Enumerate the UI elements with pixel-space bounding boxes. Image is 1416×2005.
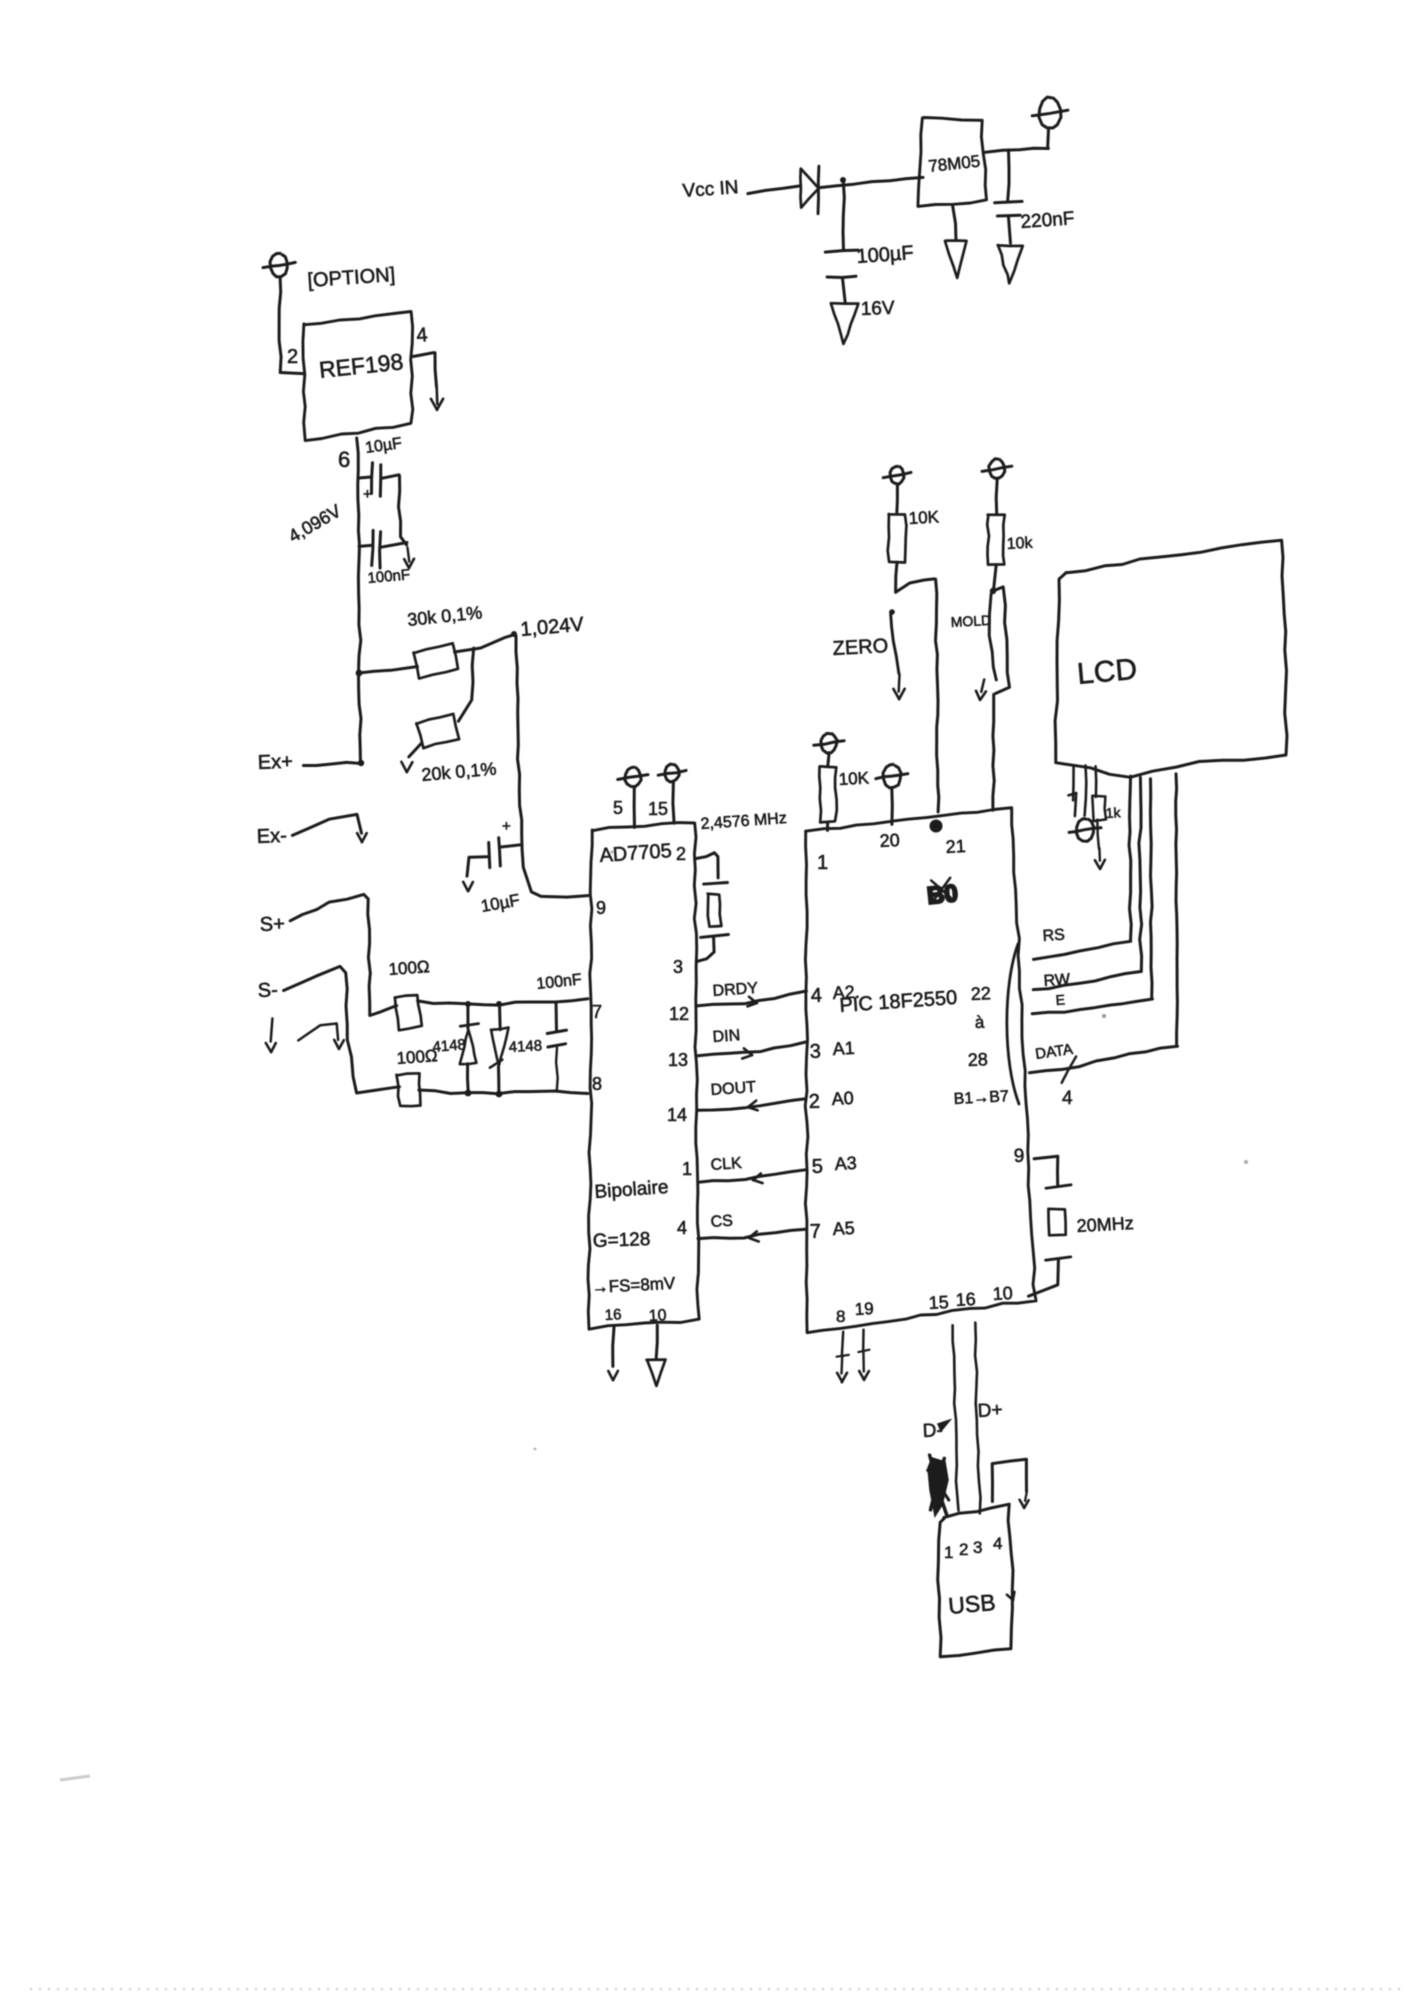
svg-text:19: 19 xyxy=(854,1299,874,1319)
svg-text:1k: 1k xyxy=(1105,804,1122,821)
svg-text:20: 20 xyxy=(879,830,900,851)
svg-text:12: 12 xyxy=(669,1004,689,1024)
svg-text:1: 1 xyxy=(817,852,828,874)
svg-text:7: 7 xyxy=(809,1221,821,1243)
svg-text:A5: A5 xyxy=(832,1218,855,1239)
svg-text:1: 1 xyxy=(682,1159,692,1179)
svg-text:DIN: DIN xyxy=(712,1027,741,1046)
svg-text:10K: 10K xyxy=(838,768,870,789)
svg-text:5: 5 xyxy=(613,798,623,818)
svg-text:10: 10 xyxy=(992,1283,1013,1304)
svg-text:13: 13 xyxy=(668,1050,688,1070)
svg-text:2: 2 xyxy=(676,844,686,864)
svg-text:A0: A0 xyxy=(831,1088,854,1109)
svg-text:4: 4 xyxy=(677,1218,687,1238)
svg-text:+: + xyxy=(363,486,372,503)
svg-text:2,4576 MHz: 2,4576 MHz xyxy=(700,810,787,833)
svg-text:AD7705: AD7705 xyxy=(599,840,673,867)
svg-text:Ex+: Ex+ xyxy=(257,751,293,774)
svg-text:10µF: 10µF xyxy=(479,890,521,915)
svg-text:100nF: 100nF xyxy=(536,971,583,993)
svg-text:Ex-: Ex- xyxy=(256,825,287,848)
svg-text:Bipolaire: Bipolaire xyxy=(594,1177,669,1203)
svg-text:4148: 4148 xyxy=(508,1037,542,1056)
svg-text:10K: 10K xyxy=(908,507,940,528)
svg-text:8: 8 xyxy=(836,1307,845,1326)
svg-text:7: 7 xyxy=(592,1002,602,1022)
svg-text:100Ω: 100Ω xyxy=(388,957,430,979)
svg-text:Vcc IN: Vcc IN xyxy=(682,177,739,202)
svg-text:[OPTION]: [OPTION] xyxy=(307,264,396,292)
svg-text:100nF: 100nF xyxy=(367,566,411,587)
svg-text:16: 16 xyxy=(604,1306,622,1324)
svg-text:à: à xyxy=(974,1013,985,1032)
svg-text:2: 2 xyxy=(287,346,298,368)
svg-text:B1→B7: B1→B7 xyxy=(953,1088,1009,1108)
svg-text:15: 15 xyxy=(928,1292,949,1313)
svg-text:A1: A1 xyxy=(832,1038,855,1059)
svg-text:16: 16 xyxy=(955,1289,976,1310)
svg-text:1,024V: 1,024V xyxy=(520,613,586,640)
svg-text:G=128: G=128 xyxy=(592,1229,650,1252)
svg-text:9: 9 xyxy=(596,898,606,918)
svg-text:S-: S- xyxy=(257,979,278,1002)
svg-text:20k 0,1%: 20k 0,1% xyxy=(421,759,498,785)
svg-text:RS: RS xyxy=(1042,926,1065,945)
svg-text:CS: CS xyxy=(710,1212,733,1231)
svg-text:E: E xyxy=(1055,991,1065,1008)
svg-text:CLK: CLK xyxy=(710,1155,743,1174)
svg-text:16V: 16V xyxy=(860,298,895,320)
svg-text:LCD: LCD xyxy=(1076,653,1139,691)
svg-text:10k: 10k xyxy=(1006,535,1034,553)
svg-text:B0: B0 xyxy=(926,880,959,910)
svg-text:MOLD: MOLD xyxy=(950,612,991,630)
svg-text:14: 14 xyxy=(667,1105,687,1125)
svg-text:4: 4 xyxy=(810,985,822,1007)
svg-text:9: 9 xyxy=(1013,1146,1024,1167)
svg-text:REF198: REF198 xyxy=(318,348,405,383)
svg-text:8: 8 xyxy=(592,1074,602,1094)
svg-text:S+: S+ xyxy=(259,913,285,936)
svg-text:3: 3 xyxy=(673,957,683,977)
svg-text:15: 15 xyxy=(648,799,668,819)
svg-text:DATA: DATA xyxy=(1034,1041,1074,1063)
svg-text:3: 3 xyxy=(973,1538,982,1557)
svg-text:100µF: 100µF xyxy=(856,242,915,268)
svg-text:D+: D+ xyxy=(977,1400,1003,1422)
svg-text:21: 21 xyxy=(945,836,966,857)
svg-text:78M05: 78M05 xyxy=(927,152,981,176)
svg-text:30k 0,1%: 30k 0,1% xyxy=(406,602,483,630)
svg-text:4: 4 xyxy=(416,324,429,347)
svg-text:22: 22 xyxy=(970,983,991,1004)
svg-text:4148: 4148 xyxy=(432,1036,467,1056)
svg-text:DOUT: DOUT xyxy=(710,1079,757,1099)
svg-text:10µF: 10µF xyxy=(364,435,403,457)
svg-text:1: 1 xyxy=(944,1543,953,1562)
svg-text:USB: USB xyxy=(947,1589,996,1619)
svg-text:4: 4 xyxy=(993,1534,1002,1553)
svg-text:2: 2 xyxy=(808,1091,820,1113)
svg-text:4: 4 xyxy=(1062,1088,1073,1109)
svg-text:A3: A3 xyxy=(834,1153,857,1174)
svg-text:+: + xyxy=(502,818,511,835)
svg-text:DRDY: DRDY xyxy=(712,980,759,1000)
svg-text:220nF: 220nF xyxy=(1020,208,1075,233)
svg-text:6: 6 xyxy=(338,447,350,472)
svg-text:4,096V: 4,096V xyxy=(285,501,344,547)
svg-text:20MHz: 20MHz xyxy=(1076,1213,1134,1236)
svg-text:→FS=8mV: →FS=8mV xyxy=(591,1274,676,1297)
svg-text:ZERO: ZERO xyxy=(832,635,889,660)
svg-text:10: 10 xyxy=(648,1307,667,1325)
svg-text:5: 5 xyxy=(811,1156,823,1178)
svg-text:2: 2 xyxy=(959,1540,968,1559)
svg-text:28: 28 xyxy=(967,1049,988,1070)
svg-text:3: 3 xyxy=(809,1041,821,1063)
